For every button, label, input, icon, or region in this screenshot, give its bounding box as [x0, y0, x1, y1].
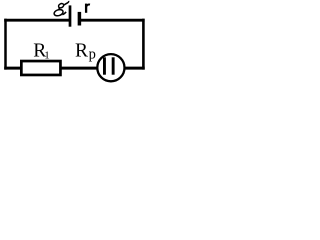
svg-text:R: R [75, 40, 88, 61]
svg-text:p: p [89, 47, 96, 63]
svg-text:1: 1 [44, 50, 50, 62]
